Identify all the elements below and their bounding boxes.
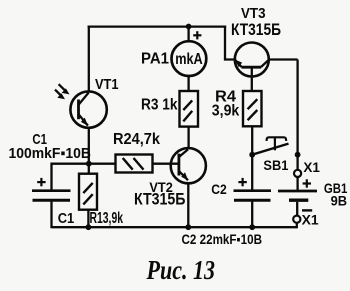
svg-text:R24,7k: R24,7k xyxy=(113,131,160,148)
node VT2 emitter bottom xyxy=(185,224,191,230)
wire VT2 emitter down xyxy=(187,183,189,228)
battery GB1 xyxy=(278,191,317,200)
svg-text:VT1: VT1 xyxy=(95,77,119,93)
svg-text:C1: C1 xyxy=(58,211,74,227)
capacitor C1 xyxy=(32,191,71,201)
switch SB1 lever xyxy=(252,144,288,155)
wire C2 bottom lead xyxy=(251,202,253,229)
transistor VT2 xyxy=(171,148,206,183)
svg-text:SB1: SB1 xyxy=(263,158,288,173)
plus sign C2 xyxy=(238,178,246,186)
resistor R1 xyxy=(88,164,90,174)
svg-text:C2 22mkF▪10B: C2 22mkF▪10B xyxy=(182,231,263,247)
svg-text:mkA: mkA xyxy=(175,51,203,68)
wire top horizontal xyxy=(89,25,225,27)
svg-text:PA1: PA1 xyxy=(141,51,169,68)
wire right vertical from VT3 to X1 xyxy=(296,60,298,170)
svg-text:R3 1k: R3 1k xyxy=(141,97,178,114)
label X1 bottom with overline xyxy=(302,209,312,211)
switch SB1 actuator xyxy=(267,137,287,150)
node SB1 right contact xyxy=(295,152,301,158)
resistor R2 xyxy=(89,163,116,165)
wire R3 to VT2 collector xyxy=(187,127,189,149)
svg-text:Рис. 13: Рис. 13 xyxy=(146,255,215,285)
wire GB1 to X1 bottom xyxy=(296,202,298,216)
wire X1 bottom to rail xyxy=(296,223,298,228)
wire PA1 to R3 xyxy=(187,76,189,92)
wire PA1 top lead xyxy=(187,27,189,42)
svg-text:КТ315Б: КТ315Б xyxy=(231,20,281,39)
node R1 bottom xyxy=(86,224,92,230)
wire junction to C1 xyxy=(52,164,89,190)
svg-text:C2: C2 xyxy=(211,182,227,197)
wire left vertical to VT1 collector xyxy=(88,27,90,91)
photo arrows into VT1 xyxy=(55,84,65,95)
resistor R4 xyxy=(243,91,262,126)
node C2 bottom xyxy=(249,224,255,230)
plus sign PA1 xyxy=(193,31,201,39)
wire C1 bottom lead xyxy=(50,202,52,229)
wire VT3 right lead xyxy=(269,58,298,60)
node emitter junction xyxy=(86,161,92,167)
svg-text:100mkF▪10B: 100mkF▪10B xyxy=(9,145,92,162)
wire bottom rail xyxy=(52,226,297,228)
resistor R3 xyxy=(180,91,199,127)
node SB1 left contact xyxy=(249,152,255,158)
svg-text:R13,9k: R13,9k xyxy=(90,210,124,227)
svg-text:X1: X1 xyxy=(302,212,320,227)
capacitor C2 xyxy=(234,191,272,201)
connector X1 bottom xyxy=(293,216,300,223)
wire R4 to C2 xyxy=(251,126,253,190)
node junction above PA1 xyxy=(186,24,192,30)
plus sign C1 xyxy=(37,178,45,186)
transistor VT3 xyxy=(235,43,269,77)
wire R2 to VT2 base xyxy=(153,163,180,165)
wire VT1 emitter down xyxy=(88,128,90,165)
wire corner to VT3 emitter xyxy=(225,27,235,60)
wire VT3 base stem to R4 xyxy=(251,67,253,91)
meter PA1 xyxy=(172,41,207,76)
svg-text:3,9k: 3,9k xyxy=(212,103,240,120)
connector X1 top xyxy=(294,170,301,177)
transistor VT1 (photo) xyxy=(70,91,106,127)
svg-text:X1: X1 xyxy=(303,160,320,175)
svg-text:9B: 9B xyxy=(331,194,348,209)
wire X1 to GB1 xyxy=(296,177,298,190)
svg-text:КТ315Б: КТ315Б xyxy=(134,190,186,209)
plus sign GB1 xyxy=(303,179,311,187)
